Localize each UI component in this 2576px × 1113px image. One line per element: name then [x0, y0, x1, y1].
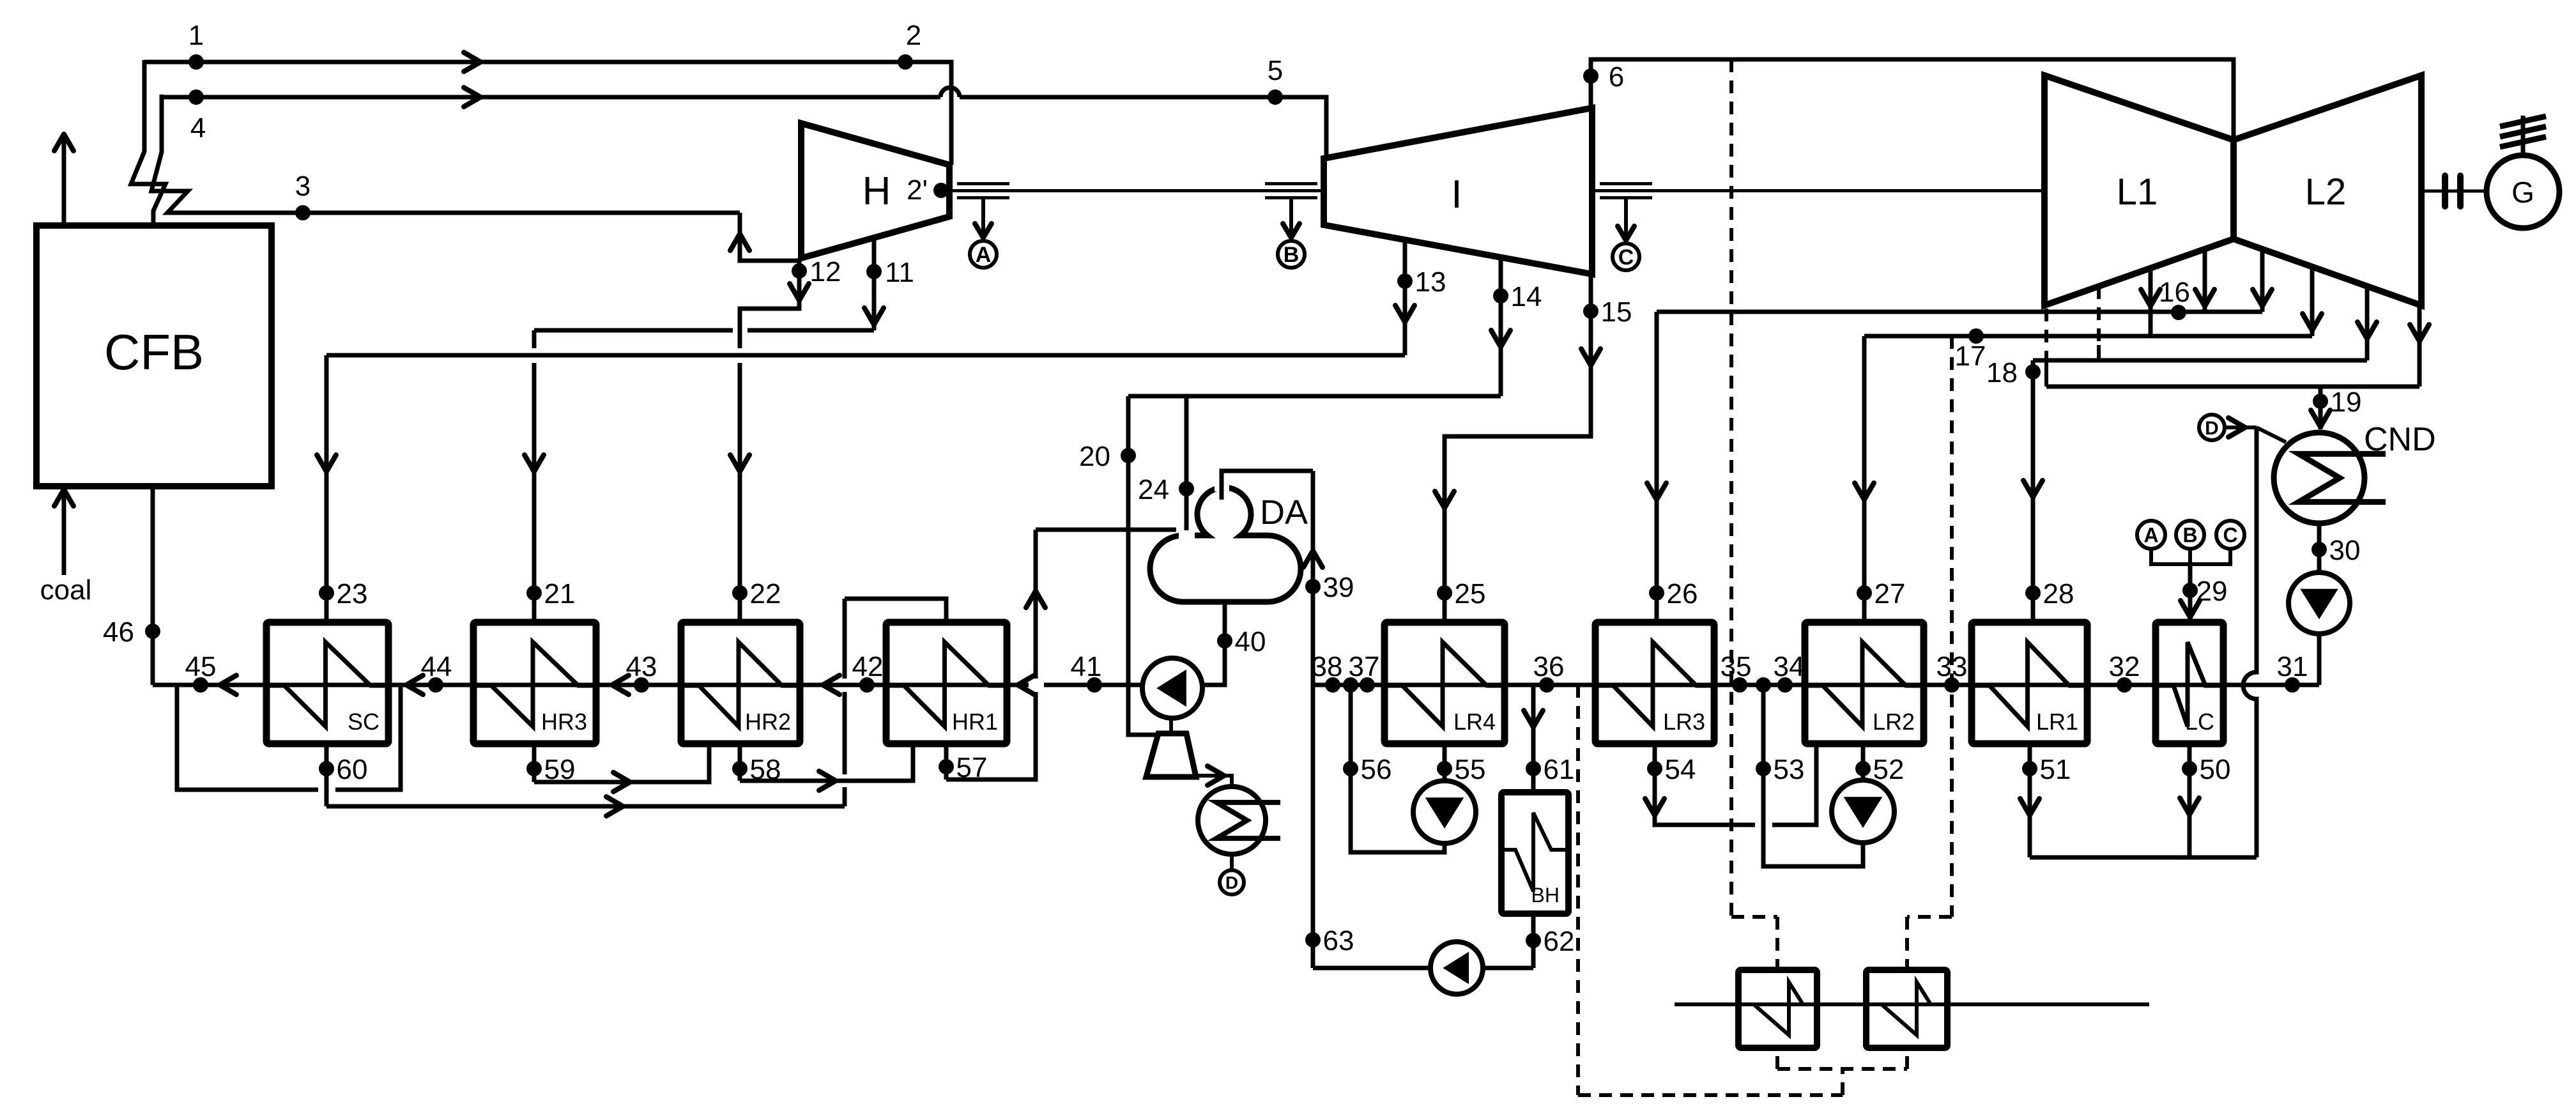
- wire feedwater to CFB: [151, 486, 155, 685]
- node 45: [193, 677, 208, 693]
- svg-text:HR3: HR3: [541, 709, 587, 735]
- node 37: [1343, 677, 1358, 693]
- extraction 15 from I: [1445, 274, 1591, 622]
- svg-text:21: 21: [544, 578, 576, 610]
- svg-text:27: 27: [1874, 578, 1906, 610]
- svg-text:D: D: [2205, 418, 2219, 439]
- node 50: [2182, 761, 2197, 776]
- svg-text:12: 12: [810, 256, 841, 288]
- BH box: [1501, 792, 1568, 914]
- arrow on line 1: [464, 52, 480, 72]
- svg-text:44: 44: [421, 651, 452, 682]
- svg-text:50: 50: [2200, 754, 2231, 785]
- extraction arrow to B: [1289, 198, 1293, 239]
- main condensate line right part (y=1072): [1313, 683, 2319, 687]
- svg-text:SC: SC: [348, 709, 379, 735]
- heater HR2: [681, 622, 800, 744]
- svg-text:1: 1: [188, 20, 204, 51]
- svg-text:C: C: [2223, 524, 2237, 547]
- node 22: [732, 585, 747, 601]
- svg-text:28: 28: [2043, 578, 2074, 610]
- wire crossover line 6 (y=93): [1591, 59, 2234, 140]
- zigzag boiler connection stroke right / cold reheat line 3: [151, 95, 740, 213]
- svg-text:LR2: LR2: [1873, 709, 1915, 735]
- circled B2: [2176, 521, 2204, 549]
- svg-text:22: 22: [750, 578, 781, 610]
- node 43: [634, 677, 649, 693]
- bearing before I: [1265, 182, 1317, 185]
- coupling bars: [2442, 176, 2448, 206]
- condensate pump line: [2317, 523, 2322, 572]
- heater LR4: [1384, 622, 1505, 744]
- svg-text:23: 23: [337, 578, 368, 610]
- svg-text:14: 14: [1511, 281, 1542, 312]
- heater LR3: [1595, 622, 1714, 744]
- wire line 3 to H exhaust corner: [740, 213, 799, 261]
- circled A2: [2137, 521, 2165, 549]
- node 13: [1397, 273, 1413, 289]
- svg-text:I: I: [1451, 173, 1462, 217]
- heater HR1: [886, 622, 1007, 744]
- svg-text:2': 2': [907, 174, 928, 206]
- wire LR1 steam drop: [2031, 360, 2035, 622]
- svg-text:B: B: [2182, 524, 2197, 547]
- generator grid symbol: [2521, 116, 2526, 155]
- svg-text:40: 40: [1235, 626, 1266, 657]
- svg-text:62: 62: [1544, 926, 1575, 957]
- deaerator DA cloud: [1150, 487, 1301, 602]
- L1 extraction to LR3 line16 (y=488): [1657, 310, 2262, 314]
- svg-text:13: 13: [1415, 266, 1446, 298]
- arrow up on 39-riser: [1303, 551, 1322, 567]
- node 61: [1526, 761, 1541, 776]
- node 21: [526, 585, 542, 601]
- svg-text:55: 55: [1455, 754, 1486, 785]
- bearing after H: [957, 182, 1009, 185]
- svg-text:L1: L1: [2117, 171, 2158, 213]
- wire hot reheat line 4-5 (y=152) with hop at x=1486: [162, 95, 940, 100]
- condensate pump: [2288, 572, 2350, 634]
- svg-text:25: 25: [1455, 578, 1486, 610]
- circled C2: [2216, 521, 2244, 549]
- svg-text:32: 32: [2109, 651, 2140, 682]
- svg-text:42: 42: [852, 651, 884, 682]
- svg-text:A: A: [976, 243, 992, 267]
- svg-text:LR3: LR3: [1663, 709, 1705, 735]
- arrow on 60-line: [606, 797, 623, 816]
- circled D: [1220, 870, 1244, 894]
- node 31: [2285, 677, 2300, 693]
- svg-text:3: 3: [295, 171, 310, 202]
- svg-text:26: 26: [1667, 578, 1698, 610]
- node 55: [1437, 761, 1452, 776]
- wire ABC to LC: [2188, 564, 2193, 620]
- svg-text:HR2: HR2: [745, 709, 791, 735]
- ABC bracket: [2151, 549, 2230, 564]
- node 18: [2025, 364, 2041, 380]
- LR4 drain pump: [1413, 781, 1476, 843]
- arrow on line to HR2: [730, 455, 749, 472]
- LR3 drain 54: [1655, 744, 1755, 825]
- condenser CND: [2274, 433, 2365, 523]
- svg-text:46: 46: [103, 617, 134, 648]
- L1 drop b: [2203, 249, 2207, 312]
- arrow on line to LR3: [1647, 483, 1666, 500]
- node 39: [1305, 579, 1321, 594]
- D-line vertical with hop: [2243, 427, 2257, 857]
- node 63: [1305, 932, 1321, 948]
- svg-text:34: 34: [1774, 651, 1805, 682]
- arrow D to condenser: [2225, 426, 2257, 429]
- arrow on line to HR3: [525, 455, 544, 472]
- L2 drop c: [2260, 249, 2265, 312]
- svg-text:D: D: [1225, 873, 1238, 893]
- circled C: [1613, 243, 1639, 270]
- node 29: [2182, 583, 2198, 598]
- extraction 12 from H: [740, 258, 799, 348]
- heater SC: [266, 622, 388, 744]
- svg-text:BH: BH: [1531, 884, 1560, 907]
- svg-text:54: 54: [1665, 754, 1696, 785]
- circled D makeup: [2199, 415, 2225, 440]
- node 12: [792, 263, 807, 279]
- node 32: [2117, 677, 2132, 693]
- CFB flue-gas arrow: [62, 139, 66, 226]
- circled A: [970, 241, 997, 268]
- svg-text:41: 41: [1071, 651, 1102, 682]
- wire line 2 drop to turbine H: [949, 60, 954, 165]
- wire branch 24 to DA: [1184, 396, 1189, 547]
- node 16: [2171, 305, 2186, 320]
- svg-text:4: 4: [190, 112, 206, 144]
- CFB boiler box: [36, 226, 272, 486]
- svg-text:CFB: CFB: [104, 324, 204, 380]
- svg-text:B: B: [1284, 243, 1299, 267]
- boiler feed pump: [1142, 658, 1202, 718]
- svg-text:CND: CND: [2364, 421, 2436, 458]
- heater HR3: [473, 622, 596, 744]
- node 26: [1649, 585, 1664, 601]
- wire pump to main line: [2317, 634, 2322, 685]
- BFP drive stem: [1169, 718, 1173, 735]
- svg-text:HR1: HR1: [952, 709, 998, 735]
- wire 39-riser top into DA: [1222, 471, 1313, 500]
- node 59: [526, 761, 542, 776]
- BH drain to riser: [1531, 914, 1536, 968]
- HR2 drain 58: [738, 744, 742, 781]
- svg-text:51: 51: [2040, 754, 2071, 785]
- svg-text:H: H: [862, 169, 891, 213]
- arrow up on line-3 riser: [730, 234, 749, 250]
- svg-text:63: 63: [1323, 925, 1354, 956]
- wire SC steam drop: [325, 355, 329, 622]
- arrow on line to LR1: [2023, 480, 2043, 497]
- node 34: [1777, 677, 1793, 693]
- node 6: [1583, 68, 1598, 84]
- BFPT turbine: [1146, 733, 1196, 777]
- node 2: [898, 54, 913, 70]
- dashed stub L1 edge to line18: [2097, 286, 2101, 345]
- svg-text:C: C: [1618, 245, 1634, 270]
- node 2' on shaft: [933, 183, 949, 198]
- node 28: [2025, 585, 2041, 601]
- extraction arrow to A: [981, 198, 985, 239]
- svg-text:16: 16: [2159, 277, 2190, 308]
- node 35: [1732, 677, 1747, 693]
- turbine I: [1324, 108, 1592, 274]
- node 40: [1217, 633, 1232, 649]
- svg-text:60: 60: [337, 754, 368, 785]
- svg-text:39: 39: [1323, 572, 1354, 603]
- SC drain 60: [325, 744, 329, 806]
- HR3 drain 59: [532, 744, 537, 782]
- svg-text:19: 19: [2331, 387, 2362, 418]
- arrow on line to LR2: [1855, 483, 1874, 500]
- wire LR2 steam drop: [1862, 336, 1867, 622]
- node 60: [319, 761, 334, 776]
- extraction 14 from I: [1499, 256, 1503, 396]
- arrow on line to LR4: [1435, 491, 1454, 508]
- node 25: [1437, 585, 1452, 601]
- node 5: [1268, 89, 1283, 105]
- svg-text:52: 52: [1873, 754, 1905, 785]
- junction dot LR2 loop: [1756, 677, 1771, 693]
- shaft I to L1: [1592, 189, 2044, 192]
- LR4 pump loop 56-55: [1351, 685, 1445, 852]
- heater LR1: [1972, 622, 2087, 744]
- LR2 drain pump: [1832, 780, 1894, 843]
- svg-text:LR4: LR4: [1453, 709, 1496, 735]
- extraction 11 from H: [872, 237, 877, 330]
- bearing after I: [1600, 182, 1652, 185]
- svg-text:57: 57: [956, 752, 988, 783]
- svg-text:LR1: LR1: [2036, 709, 2078, 735]
- generator G: [2487, 155, 2559, 228]
- svg-text:A: A: [2143, 524, 2158, 547]
- drain header to D-line: [2030, 856, 2257, 860]
- node 23: [319, 585, 334, 601]
- junction dot right of 37: [1360, 677, 1375, 693]
- extraction 13 from I: [1403, 238, 1407, 355]
- node 58: [732, 761, 747, 776]
- node 19: [2313, 394, 2328, 409]
- node 41: [1087, 677, 1102, 693]
- wire line 13 to SC (y=556): [326, 353, 1405, 358]
- gland condenser sigma: [1198, 787, 1266, 854]
- dashed line from crossover to DH1: [1729, 59, 1733, 917]
- wire to condenser: [2319, 387, 2323, 429]
- svg-text:59: 59: [544, 754, 576, 785]
- node 17: [1968, 328, 1984, 344]
- turbine H: [801, 123, 949, 258]
- heater LR2: [1805, 622, 1924, 744]
- svg-text:37: 37: [1349, 651, 1380, 682]
- HR1 drain 57 to DA: [944, 744, 949, 779]
- node 4: [188, 89, 204, 105]
- turbine L2: [2234, 75, 2421, 305]
- riser from main line to DA (39/63): [1311, 471, 1315, 968]
- shaft H to I: [949, 189, 1324, 192]
- node 54: [1647, 761, 1662, 776]
- main feedwater line left part (y=1072): [153, 683, 1029, 687]
- node 53: [1756, 761, 1771, 776]
- wire LR3 steam drop: [1655, 312, 1659, 622]
- svg-text:15: 15: [1601, 296, 1632, 328]
- L2 drop d: [2310, 267, 2315, 336]
- svg-text:31: 31: [2277, 651, 2308, 682]
- node 42: [859, 677, 875, 693]
- svg-text:53: 53: [1774, 754, 1805, 785]
- svg-text:30: 30: [2329, 535, 2361, 566]
- extraction arrow to C: [1624, 198, 1628, 242]
- svg-text:L2: L2: [2305, 171, 2347, 213]
- L2 exhaust drop: [2418, 305, 2422, 387]
- svg-text:2: 2: [906, 20, 921, 51]
- svg-text:45: 45: [185, 651, 217, 682]
- svg-text:56: 56: [1361, 754, 1392, 785]
- arrow up on 57-riser: [1026, 591, 1045, 608]
- exhaust header (y=605): [2046, 385, 2419, 389]
- DH water line: [1675, 1002, 2149, 1006]
- svg-text:DA: DA: [1260, 493, 1308, 532]
- DA outlet 40: [1203, 602, 1225, 685]
- LC drain 50: [2188, 744, 2192, 857]
- svg-text:5: 5: [1268, 55, 1283, 86]
- stem to D: [1230, 854, 1234, 871]
- svg-text:43: 43: [626, 651, 657, 682]
- wire line 11 to HR3 (y=517, broken at x=1158): [534, 328, 733, 333]
- LR1 drain 51: [2028, 744, 2032, 857]
- svg-text:35: 35: [1721, 651, 1752, 682]
- svg-text:LC: LC: [2185, 709, 2214, 735]
- node 20: [1121, 448, 1136, 463]
- svg-text:18: 18: [1986, 357, 2018, 388]
- SC bypass loop: [177, 685, 318, 790]
- shaft L2 to generator: [2421, 190, 2484, 193]
- zigzag boiler connection stroke left: [131, 60, 165, 227]
- coal feed arrow: [62, 495, 66, 575]
- svg-text:17: 17: [1955, 341, 1986, 372]
- node 62: [1526, 933, 1541, 948]
- L1 drop a: [2149, 268, 2153, 336]
- BFPT exhaust: [1195, 776, 1232, 787]
- svg-text:38: 38: [1312, 651, 1343, 682]
- node 36: [1539, 677, 1554, 693]
- svg-text:coal: coal: [40, 574, 92, 606]
- DH heater 2: [1866, 970, 1947, 1048]
- arrow on line to SC: [317, 455, 336, 472]
- node 51: [2022, 761, 2037, 776]
- node 38: [1325, 677, 1340, 693]
- svg-text:G: G: [2511, 176, 2534, 209]
- wire line 14 (y=620) to DA/BFPT riser: [1128, 394, 1501, 399]
- node 57: [939, 759, 954, 774]
- node 3: [295, 205, 310, 220]
- arrow on 58-line: [819, 771, 836, 790]
- wire line 5 drop to turbine I: [1324, 95, 1329, 159]
- 60-line riser over HR1: [843, 787, 847, 806]
- circled B: [1278, 241, 1305, 268]
- svg-text:11: 11: [885, 257, 914, 288]
- wire riser 20 down to BFPT: [1128, 396, 1156, 735]
- node 15: [1583, 303, 1598, 319]
- node 30: [2311, 542, 2327, 557]
- node 56: [1343, 761, 1358, 776]
- node 52: [1855, 761, 1871, 776]
- node 33: [1944, 677, 1959, 693]
- L2 extraction to LR1 line18 (y=564): [2033, 358, 2367, 363]
- turbine L1: [2044, 75, 2234, 305]
- arrow on 59-line: [613, 772, 630, 792]
- BH loop pump: [1430, 942, 1483, 994]
- LR2 pump loop 53-52: [1763, 685, 1863, 866]
- L2 drop e: [2365, 286, 2370, 360]
- svg-text:6: 6: [1609, 61, 1624, 93]
- svg-text:36: 36: [1533, 651, 1565, 682]
- dashed return from main line: [1576, 685, 1580, 1095]
- node 27: [1857, 585, 1872, 601]
- wire HR3 steam drop: [532, 330, 537, 348]
- svg-text:20: 20: [1079, 441, 1110, 472]
- dashed line from line17 to DH2: [1950, 336, 1954, 917]
- node 1: [188, 54, 204, 70]
- svg-text:61: 61: [1544, 754, 1575, 785]
- node 46: [145, 624, 160, 639]
- heater LC: [2156, 622, 2223, 744]
- svg-text:29: 29: [2196, 576, 2228, 607]
- wire main steam line 1 (y=97): [144, 60, 951, 65]
- DH heater 1: [1738, 970, 1817, 1048]
- svg-text:24: 24: [1138, 474, 1169, 505]
- dashed stub from L1 corner: [2044, 309, 2048, 363]
- svg-text:58: 58: [750, 754, 781, 785]
- node 44: [428, 677, 443, 693]
- arrow on line 4: [464, 88, 480, 107]
- node 14: [1493, 288, 1508, 303]
- BH branch: [1531, 685, 1536, 792]
- node 11: [866, 264, 882, 279]
- node 24: [1179, 481, 1194, 496]
- L2 extraction to LR2 line17 (y=526): [1864, 334, 2312, 339]
